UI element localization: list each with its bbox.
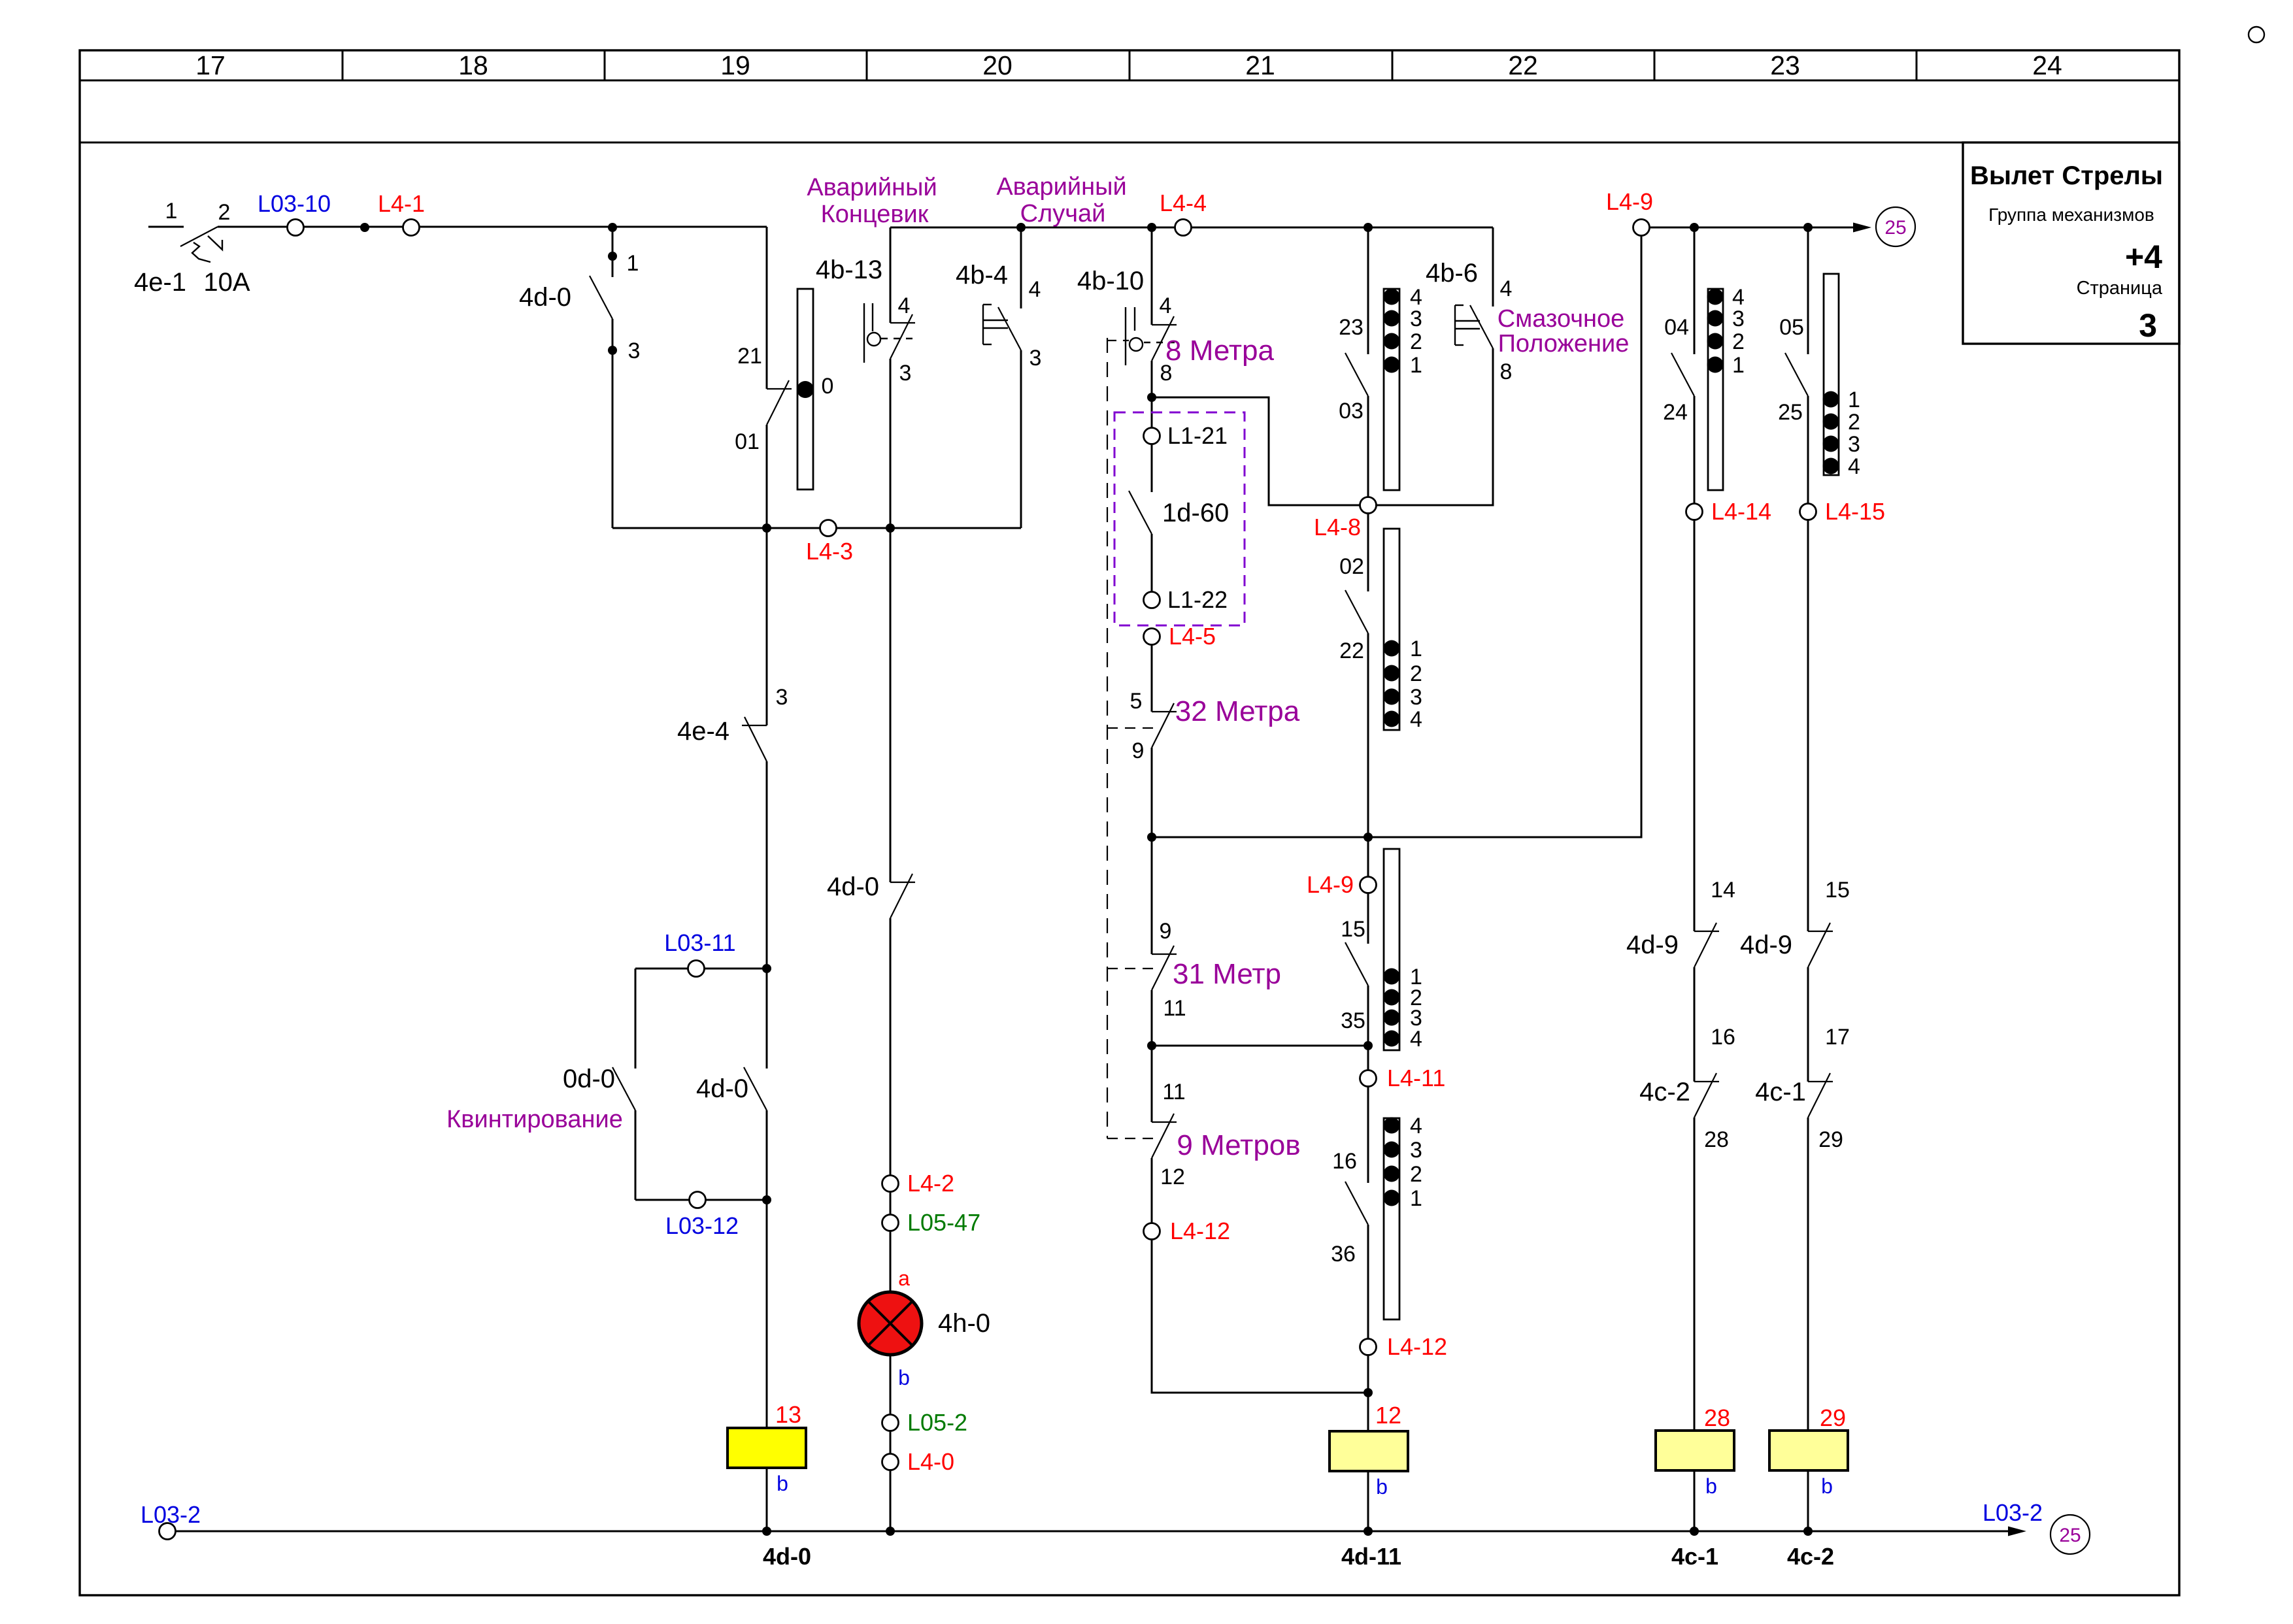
svg-text:4e-1: 4e-1 <box>134 268 186 297</box>
svg-text:L4-9: L4-9 <box>1606 188 1653 215</box>
terminal L4-2 <box>882 1170 955 1197</box>
svg-text:21: 21 <box>737 344 762 369</box>
svg-text:3: 3 <box>899 361 912 386</box>
svg-text:L03-11: L03-11 <box>664 929 735 956</box>
cam bar 1 <box>1384 285 1422 490</box>
svg-text:b: b <box>1705 1474 1717 1498</box>
terminal L4-11 <box>1360 1065 1446 1091</box>
svg-text:a: a <box>898 1267 910 1290</box>
svg-text:4b-6: 4b-6 <box>1426 259 1478 288</box>
relay coil 4c-2 terminal 29 <box>1769 1404 1848 1531</box>
svg-text:4e-4: 4e-4 <box>677 717 729 746</box>
contact 4b-10 4/8 (NC, roller) <box>1077 227 1177 429</box>
wire: top bus segment B <box>890 227 1493 229</box>
svg-text:24: 24 <box>1663 400 1688 425</box>
svg-text:2: 2 <box>1732 329 1745 354</box>
svg-text:16: 16 <box>1332 1149 1357 1174</box>
junction <box>1364 1527 1373 1536</box>
svg-text:4: 4 <box>1848 454 1860 479</box>
junction <box>1690 1527 1699 1536</box>
cam bar A <box>1707 285 1745 490</box>
cam bar 3 <box>1384 849 1422 1052</box>
svg-text:9: 9 <box>1160 919 1172 944</box>
label L03-2 right <box>1983 1499 2043 1526</box>
wire row y=1600 <box>1152 1045 1368 1047</box>
wire long row y=1279 <box>1152 227 1641 837</box>
contact 15/35 (NO) <box>1341 892 1368 1071</box>
svg-text:L4-14: L4-14 <box>1711 498 1771 525</box>
label 8 Метра <box>1165 335 1274 367</box>
svg-text:4: 4 <box>1029 277 1041 302</box>
svg-text:Вылет Стрелы: Вылет Стрелы <box>1970 161 2163 190</box>
svg-text:1: 1 <box>1410 353 1422 378</box>
svg-text:Смазочное: Смазочное <box>1498 305 1625 333</box>
terminal L4-3 <box>806 520 853 565</box>
title block <box>1963 142 2179 344</box>
label Аварийный Случай <box>996 173 1126 227</box>
wire: top bus segment A <box>148 226 767 228</box>
svg-text:2: 2 <box>1848 410 1860 435</box>
svg-text:19: 19 <box>720 50 750 80</box>
contact 4d-0 (NC) above lamp <box>827 528 915 1176</box>
svg-text:8: 8 <box>1500 359 1513 384</box>
contact 16/28 4c-2 (NC) <box>1639 967 1729 1431</box>
svg-text:4: 4 <box>1160 293 1172 318</box>
contact 05/25 (NO) <box>1778 227 1808 505</box>
junction L4-4 node <box>1147 223 1156 232</box>
svg-text:L4-4: L4-4 <box>1160 190 1207 216</box>
svg-text:L03-12: L03-12 <box>665 1212 739 1239</box>
svg-text:04: 04 <box>1664 315 1689 340</box>
svg-text:b: b <box>1376 1475 1388 1499</box>
terminal L1-21 <box>1144 422 1228 449</box>
svg-text:3: 3 <box>1029 346 1042 371</box>
svg-text:L1-22: L1-22 <box>1167 586 1228 613</box>
svg-text:4: 4 <box>1410 707 1422 732</box>
terminal L4-14 <box>1686 498 1772 525</box>
svg-text:3: 3 <box>1410 1138 1422 1163</box>
label Смазочное Положение <box>1498 305 1630 357</box>
svg-text:L05-2: L05-2 <box>907 1409 967 1436</box>
svg-text:1: 1 <box>1732 353 1745 378</box>
svg-text:L4-0: L4-0 <box>907 1448 954 1475</box>
roller actuator of 4b-10 <box>1126 307 1175 365</box>
wire: bottom bus with arrow <box>175 1527 2026 1536</box>
mechanical dashed link <box>1107 338 1160 1138</box>
circuit breaker 4e-1 10A <box>134 199 250 297</box>
wire down to row y=2131 <box>1152 1238 1368 1393</box>
contact 4b-13 4/3 (NC, roller) <box>890 227 915 528</box>
svg-text:3: 3 <box>2139 307 2157 344</box>
junction <box>1803 223 1813 232</box>
svg-text:18: 18 <box>458 50 488 80</box>
wire row y=808 <box>612 527 1021 529</box>
svg-text:03: 03 <box>1339 399 1364 423</box>
svg-text:4: 4 <box>1410 1114 1422 1138</box>
cam bar 4 <box>1384 1114 1422 1319</box>
binder hole <box>2249 27 2264 42</box>
svg-text:14: 14 <box>1711 878 1735 903</box>
svg-text:L4-11: L4-11 <box>1387 1065 1445 1091</box>
cam bar B <box>1823 274 1860 479</box>
contact 17/29 4c-1 (NC) <box>1755 967 1843 1431</box>
terminal L4-9 <box>1307 871 1377 898</box>
svg-text:02: 02 <box>1339 554 1364 579</box>
svg-text:3: 3 <box>776 685 788 710</box>
junction <box>762 1195 771 1204</box>
wire row L03-12 <box>635 1199 767 1201</box>
svg-text:5: 5 <box>1130 689 1143 714</box>
svg-text:4c-2: 4c-2 <box>1639 1078 1690 1106</box>
terminal L4-0 <box>882 1430 955 1531</box>
junction <box>762 1527 771 1536</box>
contact 31 Метр 9/11 (NC) <box>1152 837 1281 1046</box>
svg-text:2: 2 <box>1410 1162 1422 1187</box>
svg-text:25: 25 <box>2059 1525 2081 1546</box>
svg-text:2: 2 <box>1410 661 1422 686</box>
junction <box>1016 223 1026 232</box>
svg-text:3: 3 <box>1848 432 1860 457</box>
junction <box>762 523 771 533</box>
terminal L4-12 right <box>1360 1333 1448 1360</box>
svg-text:4d-0: 4d-0 <box>696 1074 748 1103</box>
contact 02/22 (NO) <box>1339 512 1368 878</box>
contact 4b-13 21/01 (NC) <box>735 227 792 725</box>
svg-text:25: 25 <box>1778 400 1803 425</box>
svg-text:3: 3 <box>1410 307 1422 331</box>
junction <box>1147 833 1156 842</box>
svg-text:4d-9: 4d-9 <box>1626 931 1679 959</box>
bottom designators <box>763 1543 1834 1570</box>
svg-text:1: 1 <box>1410 1186 1422 1211</box>
svg-text:11: 11 <box>1163 996 1186 1021</box>
svg-text:15: 15 <box>1825 878 1850 903</box>
svg-text:L05-47: L05-47 <box>907 1209 980 1236</box>
svg-text:32 Метра: 32 Метра <box>1175 695 1300 727</box>
svg-text:9 Метров: 9 Метров <box>1177 1129 1300 1161</box>
terminal L05-47 <box>882 1191 981 1236</box>
svg-text:3: 3 <box>1732 307 1745 331</box>
svg-text:1: 1 <box>627 251 639 276</box>
svg-text:12: 12 <box>1375 1402 1401 1429</box>
contact 15/17 4d-9 (NC) <box>1740 519 1850 1050</box>
relay coil 4c-1 terminal 28 <box>1656 1404 1734 1531</box>
svg-text:L4-1: L4-1 <box>378 190 425 217</box>
terminal L1-22 <box>1144 586 1228 613</box>
contact 4d-0 lower (NO) <box>696 969 767 1200</box>
4b-13 cam bar with position 0 <box>797 256 882 489</box>
svg-text:L4-12: L4-12 <box>1387 1333 1447 1360</box>
svg-text:4: 4 <box>1410 1027 1422 1052</box>
terminal L4-12 <box>1144 1218 1231 1244</box>
svg-text:Аварийный: Аварийный <box>996 173 1126 201</box>
junction <box>886 1527 895 1536</box>
svg-text:L4-9: L4-9 <box>1307 871 1354 898</box>
svg-text:+4: +4 <box>2125 239 2162 275</box>
terminal L4-15 <box>1800 498 1886 525</box>
svg-text:36: 36 <box>1331 1242 1356 1267</box>
svg-text:25: 25 <box>1884 217 1906 239</box>
svg-text:22: 22 <box>1508 50 1538 80</box>
svg-text:L03-2: L03-2 <box>141 1501 201 1528</box>
junction <box>1690 223 1699 232</box>
relay coil 4d-11 terminal 12 <box>1330 1354 1408 1531</box>
svg-text:3: 3 <box>628 339 641 363</box>
contact 0d-0 (NO) Квинтирование <box>446 969 635 1200</box>
svg-text:4c-1: 4c-1 <box>1755 1078 1806 1106</box>
svg-text:4: 4 <box>1500 276 1513 301</box>
terminal L03-12 <box>665 1192 739 1240</box>
svg-text:0: 0 <box>822 374 834 399</box>
svg-text:4b-13: 4b-13 <box>816 256 882 284</box>
wire row L03-11 <box>635 968 767 970</box>
svg-text:Положение: Положение <box>1498 330 1630 357</box>
svg-text:L4-12: L4-12 <box>1170 1218 1230 1244</box>
svg-text:12: 12 <box>1160 1165 1185 1189</box>
contact 04/24 (NO) <box>1663 227 1694 505</box>
sheet reference circle 25 <box>1876 207 1915 246</box>
junction <box>1364 1041 1373 1050</box>
svg-text:21: 21 <box>1245 50 1275 80</box>
junction at 23 column <box>1364 223 1373 232</box>
label Аварийный Концевик <box>807 174 937 228</box>
wire L4-8 to 4b-6 <box>1375 348 1493 505</box>
contact 4b-4 (NO pushbutton) <box>956 227 1041 528</box>
svg-text:24: 24 <box>2032 50 2062 80</box>
svg-text:Группа механизмов: Группа механизмов <box>1988 205 2154 225</box>
svg-text:29: 29 <box>1818 1127 1843 1152</box>
svg-text:b: b <box>777 1472 788 1495</box>
contact 23/03 (NO) <box>1339 227 1368 498</box>
svg-text:17: 17 <box>1825 1025 1850 1050</box>
svg-text:L4-5: L4-5 <box>1169 623 1216 650</box>
svg-text:11: 11 <box>1162 1080 1185 1104</box>
svg-text:16: 16 <box>1711 1025 1735 1050</box>
svg-text:Страница: Страница <box>2077 278 2163 299</box>
wire: top bus segment C with arrow to sheet 25 <box>1649 223 1871 233</box>
terminal L4-8 <box>1314 497 1377 541</box>
lamp 4h-0 <box>859 1230 990 1416</box>
svg-text:L4-15: L4-15 <box>1825 498 1885 525</box>
svg-text:4d-11: 4d-11 <box>1341 1543 1401 1570</box>
cam bar 2 <box>1384 529 1422 732</box>
svg-text:1: 1 <box>165 199 178 224</box>
svg-text:1: 1 <box>1410 637 1422 661</box>
contact 32 Метра 5/9 (NC) <box>1130 644 1300 837</box>
svg-text:4c-2: 4c-2 <box>1787 1543 1834 1570</box>
contact 4d-0 (NO) with terminals 1,3 <box>519 227 640 528</box>
svg-text:31 Метр: 31 Метр <box>1173 958 1281 990</box>
contact 9 Метров 11/12 (NC) <box>1152 1046 1301 1224</box>
terminal L4-1 <box>378 190 425 236</box>
contact 16/36 (NO) <box>1331 1085 1368 1340</box>
svg-text:35: 35 <box>1341 1008 1365 1033</box>
svg-text:22: 22 <box>1339 638 1364 663</box>
svg-text:01: 01 <box>735 429 760 454</box>
junction <box>886 523 895 533</box>
svg-text:4: 4 <box>898 293 911 318</box>
svg-text:28: 28 <box>1704 1127 1729 1152</box>
svg-text:8 Метра: 8 Метра <box>1165 335 1274 367</box>
contact 4b-6 4/8 (NO pushbutton) <box>1426 227 1512 384</box>
svg-text:b: b <box>898 1366 910 1389</box>
junction <box>762 964 771 973</box>
wire to L4-8 <box>1152 397 1368 505</box>
svg-text:L4-2: L4-2 <box>907 1170 954 1197</box>
svg-text:L1-21: L1-21 <box>1167 422 1228 449</box>
terminal L03-10 <box>258 190 331 236</box>
contact 1d-60 (NO) <box>1129 443 1229 593</box>
svg-text:Квинтирование: Квинтирование <box>446 1106 623 1133</box>
junction <box>1803 1527 1813 1536</box>
purple dashed box <box>1114 412 1245 625</box>
svg-text:4d-9: 4d-9 <box>1740 931 1792 959</box>
svg-text:L4-3: L4-3 <box>806 538 853 565</box>
svg-text:4h-0: 4h-0 <box>938 1309 990 1338</box>
terminal L4-4 <box>1160 190 1207 236</box>
svg-text:20: 20 <box>982 50 1013 80</box>
svg-text:4d-0: 4d-0 <box>519 283 571 312</box>
terminal L4-9 top <box>1606 188 1653 236</box>
svg-text:1: 1 <box>1848 388 1860 412</box>
junction <box>360 223 369 232</box>
junction node at y=608 <box>1147 393 1156 402</box>
svg-text:17: 17 <box>195 50 226 80</box>
contact 4e-4 (NC) <box>677 685 788 969</box>
terminal L03-11 <box>664 929 735 977</box>
svg-text:Аварийный: Аварийный <box>807 174 937 201</box>
junction <box>1364 833 1373 842</box>
svg-text:10A: 10A <box>203 268 250 297</box>
svg-text:Концевик: Концевик <box>821 201 929 228</box>
terminal L05-2 <box>882 1409 968 1436</box>
svg-text:L03-2: L03-2 <box>1983 1499 2043 1526</box>
junction <box>1147 1041 1156 1050</box>
terminal L4-5 <box>1144 623 1216 650</box>
svg-text:4c-1: 4c-1 <box>1671 1543 1718 1570</box>
svg-text:13: 13 <box>775 1401 801 1428</box>
junction <box>1364 1388 1373 1397</box>
contact 14/16 4d-9 (NC) <box>1626 519 1735 1050</box>
junction at 4d-0 branch <box>608 223 617 232</box>
svg-text:23: 23 <box>1339 315 1364 340</box>
svg-text:28: 28 <box>1704 1404 1730 1431</box>
svg-text:0d-0: 0d-0 <box>563 1065 615 1093</box>
svg-text:2: 2 <box>1410 329 1422 354</box>
svg-text:15: 15 <box>1341 917 1365 942</box>
svg-text:Случай: Случай <box>1020 200 1106 227</box>
relay coil 4d-0 terminal 13 <box>728 1200 806 1531</box>
svg-text:23: 23 <box>1770 50 1800 80</box>
svg-text:L4-8: L4-8 <box>1314 514 1361 540</box>
sheet reference circle 25 bottom <box>2050 1515 2090 1554</box>
svg-text:9: 9 <box>1132 738 1145 763</box>
svg-text:L03-10: L03-10 <box>258 190 331 217</box>
svg-text:4d-0: 4d-0 <box>763 1543 811 1570</box>
roller actuator of 4b-13 <box>864 303 915 363</box>
svg-text:2: 2 <box>218 200 231 225</box>
svg-text:4b-10: 4b-10 <box>1077 267 1144 295</box>
svg-text:4b-4: 4b-4 <box>956 261 1008 290</box>
svg-text:3: 3 <box>1410 685 1422 710</box>
svg-text:b: b <box>1821 1474 1833 1498</box>
terminal L03-2 left <box>141 1501 201 1540</box>
mushroom head of 4b-4 <box>983 305 1008 344</box>
svg-text:4d-0: 4d-0 <box>827 872 879 901</box>
mushroom head of 4b-6 <box>1455 305 1480 345</box>
svg-text:29: 29 <box>1820 1404 1846 1431</box>
column numbers header <box>195 50 2062 80</box>
svg-text:05: 05 <box>1779 315 1804 340</box>
svg-text:1d-60: 1d-60 <box>1162 499 1229 527</box>
